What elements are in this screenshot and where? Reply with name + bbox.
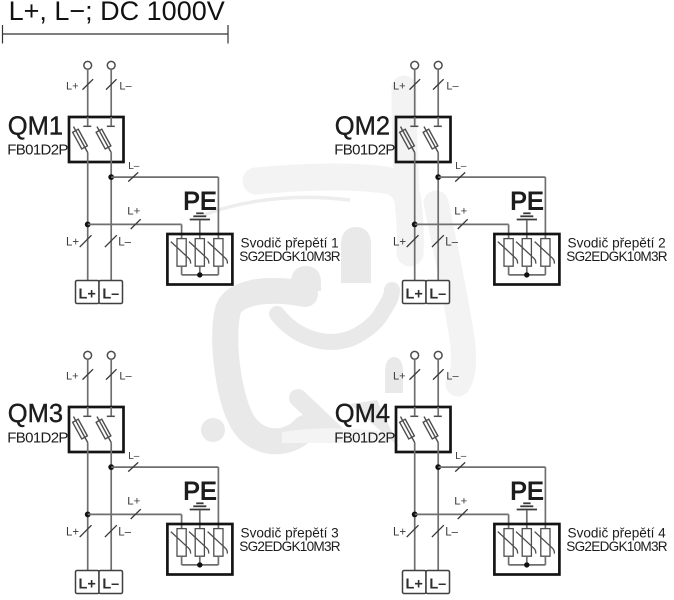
contact tick 3b xyxy=(107,415,115,417)
polarity slash on L- input (4) xyxy=(433,369,444,379)
wire xyxy=(87,407,89,416)
svg-text:L–: L– xyxy=(118,237,131,249)
wire xyxy=(87,452,89,571)
junction node L+ (2) xyxy=(412,222,418,228)
wire xyxy=(437,452,439,571)
input terminal circle L+ (1) xyxy=(84,61,92,69)
fuse body 2a xyxy=(400,129,415,149)
output terminal L+ (2) xyxy=(403,281,427,304)
wire xyxy=(199,510,201,528)
junction node PE bar (4) xyxy=(524,562,529,567)
contact tick 4a xyxy=(410,415,418,417)
dimension line xyxy=(3,33,229,35)
label L- branch (1) xyxy=(128,161,140,172)
wire xyxy=(415,223,509,225)
label L- output (3) xyxy=(118,527,131,539)
wire xyxy=(111,176,218,178)
svg-text:L–: L– xyxy=(102,287,119,303)
label L+ terminal (3) xyxy=(79,577,96,593)
output terminal L+ (1) xyxy=(76,281,100,304)
watermark switch nib xyxy=(385,357,403,393)
watermark outer band vertical arm xyxy=(404,88,407,195)
label SG2EDGK10M3R (4) xyxy=(566,539,667,554)
label FB01D2P (2) xyxy=(334,142,395,159)
fuse blade 4a xyxy=(401,417,415,443)
wire xyxy=(544,177,546,239)
wire xyxy=(437,153,439,163)
contact tick 2a xyxy=(410,125,418,127)
wire xyxy=(414,117,416,126)
fuse blade 2b xyxy=(424,127,438,153)
polarity slash on L+ branch (4) xyxy=(458,509,468,519)
junction node L+ (1) xyxy=(85,222,91,228)
svg-text:L–: L– xyxy=(445,237,458,249)
label L- input (4) xyxy=(446,371,459,383)
wire xyxy=(414,359,416,407)
svg-text:QM1: QM1 xyxy=(8,112,63,140)
wire xyxy=(87,69,89,117)
polarity slash on L- output (2) xyxy=(432,235,444,247)
wire xyxy=(110,452,112,571)
svg-text:QM4: QM4 xyxy=(335,400,390,428)
wire xyxy=(199,266,201,275)
label SG2EDGK10M3R (2) xyxy=(566,249,667,264)
polarity slash on L+ input (3) xyxy=(83,369,94,379)
ground symbol (3) xyxy=(190,503,210,509)
watermark left ring band xyxy=(225,291,305,441)
svg-text:FB01D2P: FB01D2P xyxy=(7,429,68,446)
junction node L- (2) xyxy=(435,174,441,180)
wire xyxy=(508,266,510,275)
output terminal L- (3) xyxy=(99,571,123,594)
wire xyxy=(414,452,416,571)
varistor V33 xyxy=(208,529,228,557)
wire xyxy=(111,466,218,468)
svg-text:L–: L– xyxy=(128,451,140,462)
polarity slash on L+ branch (2) xyxy=(458,219,468,229)
wire xyxy=(438,176,545,178)
dimension tick right xyxy=(227,25,229,44)
wire xyxy=(526,556,528,565)
watermark outer band horizontal arm xyxy=(256,177,410,253)
surge protector box (3) xyxy=(167,524,232,575)
junction node L+ (3) xyxy=(85,512,91,518)
polarity slash on L+ output (4) xyxy=(407,525,419,537)
wire xyxy=(181,514,183,528)
input terminal circle L- (1) xyxy=(107,61,115,69)
wire xyxy=(110,359,112,407)
wire xyxy=(87,443,89,453)
label L+ branch (3) xyxy=(127,496,140,508)
wire xyxy=(509,274,546,276)
polarity slash on L+ output (2) xyxy=(407,235,419,247)
output terminal L- (4) xyxy=(426,571,450,594)
wire xyxy=(199,556,201,565)
wire xyxy=(217,467,219,528)
svg-text:L–: L– xyxy=(446,371,459,383)
svg-text:L+, L−; DC 1000V: L+, L−; DC 1000V xyxy=(9,0,225,26)
label L- terminal (4) xyxy=(429,577,446,593)
polarity slash on L+ input (1) xyxy=(83,79,94,89)
label FB01D2P (4) xyxy=(334,429,395,446)
wire xyxy=(217,266,219,275)
contact tick 2b xyxy=(434,125,442,127)
label SG2EDGK10M3R (1) xyxy=(239,249,340,264)
watermark arrow wedge xyxy=(350,400,399,447)
dimension tick left xyxy=(2,25,4,44)
svg-text:L–: L– xyxy=(446,81,459,93)
wire xyxy=(438,466,545,468)
fuse blade 1a xyxy=(74,127,88,153)
label QM3 xyxy=(8,400,63,428)
surge protector box (2) xyxy=(494,234,559,285)
wire xyxy=(526,510,528,528)
junction node L- (1) xyxy=(108,174,114,180)
junction node L- (3) xyxy=(108,464,114,470)
svg-text:L–: L– xyxy=(445,527,458,539)
svg-text:L+: L+ xyxy=(79,577,96,593)
polarity slash on L+ branch (3) xyxy=(131,509,141,519)
fuse blade 3b xyxy=(97,417,111,443)
varistor V31 xyxy=(171,529,191,557)
label L+ output (3) xyxy=(66,527,79,539)
breaker box QM3 xyxy=(69,407,124,452)
label L+ branch (1) xyxy=(127,206,140,218)
label L- terminal (3) xyxy=(102,577,119,593)
wire xyxy=(110,407,112,416)
svg-text:SG2EDGK10M3R: SG2EDGK10M3R xyxy=(566,539,667,554)
ground symbol (4) xyxy=(517,503,537,509)
wire xyxy=(414,407,416,416)
polarity slash on L- input (1) xyxy=(106,79,117,89)
svg-text:L+: L+ xyxy=(66,371,79,383)
fuse body 1a xyxy=(73,129,88,149)
varistor V43 xyxy=(535,529,555,557)
label Svodic prepeti 3 xyxy=(241,526,339,541)
svg-text:SG2EDGK10M3R: SG2EDGK10M3R xyxy=(239,249,340,264)
label L- output (1) xyxy=(118,237,131,249)
output terminal L- (2) xyxy=(426,281,450,304)
varistor V21 xyxy=(498,239,518,267)
wire xyxy=(414,443,416,453)
wire xyxy=(110,162,112,281)
svg-text:L–: L– xyxy=(102,577,119,593)
label Svodic prepeti 2 xyxy=(568,236,666,251)
label L- input (2) xyxy=(446,81,459,93)
label L- branch (3) xyxy=(128,451,140,462)
label L- branch (4) xyxy=(455,451,467,462)
breaker box QM4 xyxy=(396,407,451,452)
svg-text:L+: L+ xyxy=(66,81,79,93)
label L+ output (4) xyxy=(393,527,406,539)
label L- terminal (2) xyxy=(429,287,446,303)
surge protector box (1) xyxy=(167,234,232,285)
input terminal circle L+ (3) xyxy=(84,351,92,359)
varistor V22 xyxy=(516,239,536,267)
surge protector box (4) xyxy=(494,524,559,575)
label L+ output (1) xyxy=(66,237,79,249)
wire xyxy=(437,69,439,117)
breaker box QM2 xyxy=(396,117,451,162)
label L- output (4) xyxy=(445,527,458,539)
watermark thin top arc xyxy=(203,197,350,215)
polarity slash on L- output (3) xyxy=(105,525,117,537)
output terminal L+ (3) xyxy=(76,571,100,594)
wire xyxy=(508,224,510,238)
varistor V13 xyxy=(208,239,228,267)
varistor V11 xyxy=(171,239,191,267)
svg-text:L–: L– xyxy=(118,527,131,539)
svg-text:QM3: QM3 xyxy=(8,400,63,428)
svg-text:L+: L+ xyxy=(79,287,96,303)
label QM4 xyxy=(335,400,390,428)
svg-text:FB01D2P: FB01D2P xyxy=(334,142,395,159)
wire xyxy=(181,266,183,275)
svg-text:L–: L– xyxy=(119,81,132,93)
wire xyxy=(217,177,219,239)
wire xyxy=(415,513,509,515)
svg-text:QM2: QM2 xyxy=(335,112,390,140)
polarity slash on L+ branch (1) xyxy=(131,219,141,229)
wire xyxy=(181,224,183,238)
label L- output (2) xyxy=(445,237,458,249)
label L+ input (2) xyxy=(393,81,406,93)
label Svodic prepeti 4 xyxy=(568,526,667,541)
contact tick 1b xyxy=(107,125,115,127)
label L+ input (4) xyxy=(393,371,406,383)
fuse blade 1b xyxy=(97,127,111,153)
input terminal circle L- (3) xyxy=(107,351,115,359)
polarity slash on L+ input (4) xyxy=(410,369,421,379)
wire xyxy=(437,359,439,407)
wire xyxy=(437,443,439,453)
ground symbol (2) xyxy=(517,213,537,219)
svg-text:FB01D2P: FB01D2P xyxy=(334,429,395,446)
junction node PE bar (2) xyxy=(524,272,529,277)
fuse body 4b xyxy=(423,419,438,439)
watermark halo behind QM4 label xyxy=(282,428,390,443)
polarity slash on L- output (1) xyxy=(105,235,117,247)
label QM1 xyxy=(8,112,63,140)
label L- terminal (1) xyxy=(102,287,119,303)
wire xyxy=(509,564,546,566)
svg-text:PE: PE xyxy=(510,478,543,506)
svg-text:L+: L+ xyxy=(393,371,406,383)
polarity slash on L- input (3) xyxy=(106,369,117,379)
polarity slash on L- branch (4) xyxy=(455,462,465,471)
fuse body 3b xyxy=(96,419,111,439)
label L- input (1) xyxy=(119,81,132,93)
wire xyxy=(110,117,112,126)
svg-text:PE: PE xyxy=(183,188,216,216)
input terminal circle L- (4) xyxy=(434,351,442,359)
wire xyxy=(544,467,546,528)
wire xyxy=(437,162,439,281)
fuse blade 3a xyxy=(74,417,88,443)
svg-text:L–: L– xyxy=(455,451,467,462)
polarity slash on L- input (2) xyxy=(433,79,444,89)
fuse body 3a xyxy=(73,419,88,439)
wire xyxy=(508,514,510,528)
wire xyxy=(110,443,112,453)
svg-text:L+: L+ xyxy=(66,527,79,539)
svg-text:L+: L+ xyxy=(454,496,467,508)
wire xyxy=(110,153,112,163)
junction node PE bar (3) xyxy=(197,562,202,567)
label L- input (3) xyxy=(119,371,132,383)
wire xyxy=(87,117,89,126)
label L+ branch (2) xyxy=(454,206,467,218)
fuse body 1b xyxy=(96,129,111,149)
varistor V42 xyxy=(516,529,536,557)
polarity slash on L- branch (3) xyxy=(128,462,138,471)
svg-text:L+: L+ xyxy=(454,206,467,218)
varistor V12 xyxy=(189,239,209,267)
svg-text:L+: L+ xyxy=(127,496,140,508)
svg-text:L+: L+ xyxy=(66,237,79,249)
junction node L- (4) xyxy=(435,464,441,470)
svg-text:L–: L– xyxy=(119,371,132,383)
fuse body 2b xyxy=(423,129,438,149)
wire xyxy=(414,153,416,163)
svg-text:FB01D2P: FB01D2P xyxy=(7,142,68,159)
wire xyxy=(110,69,112,117)
polarity slash on L+ input (2) xyxy=(410,79,421,89)
svg-text:PE: PE xyxy=(183,478,216,506)
wire xyxy=(88,223,182,225)
input terminal circle L+ (4) xyxy=(411,351,419,359)
watermark smile arc xyxy=(277,290,392,342)
polarity slash on L+ output (3) xyxy=(80,525,92,537)
wire xyxy=(526,266,528,275)
label L+ terminal (2) xyxy=(406,287,423,303)
ground symbol (1) xyxy=(190,213,210,219)
watermark outer band right descender xyxy=(436,203,464,384)
wire xyxy=(414,69,416,117)
varistor V23 xyxy=(535,239,555,267)
svg-text:L–: L– xyxy=(128,161,140,172)
svg-text:L+: L+ xyxy=(406,577,423,593)
wire xyxy=(182,274,219,276)
input terminal circle L+ (2) xyxy=(411,61,419,69)
svg-text:L+: L+ xyxy=(406,287,423,303)
svg-text:PE: PE xyxy=(510,188,543,216)
label L+ terminal (4) xyxy=(406,577,423,593)
svg-text:L–: L– xyxy=(429,287,446,303)
label Svodic prepeti 1 xyxy=(241,236,339,251)
wire xyxy=(181,556,183,565)
varistor V32 xyxy=(189,529,209,557)
contact tick 4b xyxy=(434,415,442,417)
wire xyxy=(544,556,546,565)
breaker box QM1 xyxy=(69,117,124,162)
fuse body 4a xyxy=(400,419,415,439)
svg-text:SG2EDGK10M3R: SG2EDGK10M3R xyxy=(239,539,340,554)
wire xyxy=(87,153,89,163)
label SG2EDGK10M3R (3) xyxy=(239,539,340,554)
label PE (4) xyxy=(510,478,543,506)
watermark plug prong right xyxy=(341,227,371,283)
wire xyxy=(182,564,219,566)
svg-text:L+: L+ xyxy=(393,237,406,249)
junction node PE bar (1) xyxy=(197,272,202,277)
polarity slash on L+ output (1) xyxy=(80,235,92,247)
label FB01D2P (3) xyxy=(7,429,68,446)
title text L+, L-; DC 1000V xyxy=(9,0,225,26)
varistor V41 xyxy=(498,529,518,557)
wire xyxy=(217,556,219,565)
svg-text:L–: L– xyxy=(429,577,446,593)
wire xyxy=(437,117,439,126)
polarity slash on L- branch (1) xyxy=(128,172,138,181)
wire xyxy=(508,556,510,565)
output terminal L+ (4) xyxy=(403,571,427,594)
watermark cord tail xyxy=(298,398,336,434)
label PE (2) xyxy=(510,188,543,216)
svg-text:L+: L+ xyxy=(393,81,406,93)
input terminal circle L- (2) xyxy=(434,61,442,69)
fuse blade 4b xyxy=(424,417,438,443)
watermark cable end blob xyxy=(201,418,225,442)
label L+ terminal (1) xyxy=(79,287,96,303)
wire xyxy=(87,359,89,407)
label PE (1) xyxy=(183,188,216,216)
svg-text:L+: L+ xyxy=(127,206,140,218)
svg-text:L–: L– xyxy=(455,161,467,172)
wire xyxy=(526,220,528,238)
label L+ output (2) xyxy=(393,237,406,249)
output terminal L- (1) xyxy=(99,281,123,304)
svg-text:L+: L+ xyxy=(393,527,406,539)
polarity slash on L- branch (2) xyxy=(455,172,465,181)
junction node L+ (4) xyxy=(412,512,418,518)
label PE (3) xyxy=(183,478,216,506)
wire xyxy=(437,407,439,416)
fuse blade 2a xyxy=(401,127,415,153)
wire xyxy=(199,220,201,238)
wire xyxy=(544,266,546,275)
label L+ input (1) xyxy=(66,81,79,93)
wire xyxy=(88,513,182,515)
label QM2 xyxy=(335,112,390,140)
label L+ branch (4) xyxy=(454,496,467,508)
label FB01D2P (1) xyxy=(7,142,68,159)
polarity slash on L- output (4) xyxy=(432,525,444,537)
label L+ input (3) xyxy=(66,371,79,383)
contact tick 3a xyxy=(83,415,91,417)
contact tick 1a xyxy=(83,125,91,127)
wire xyxy=(87,162,89,281)
label L- branch (2) xyxy=(455,161,467,172)
watermark plug prong left xyxy=(291,266,321,291)
svg-text:SG2EDGK10M3R: SG2EDGK10M3R xyxy=(566,249,667,264)
wire xyxy=(414,162,416,281)
